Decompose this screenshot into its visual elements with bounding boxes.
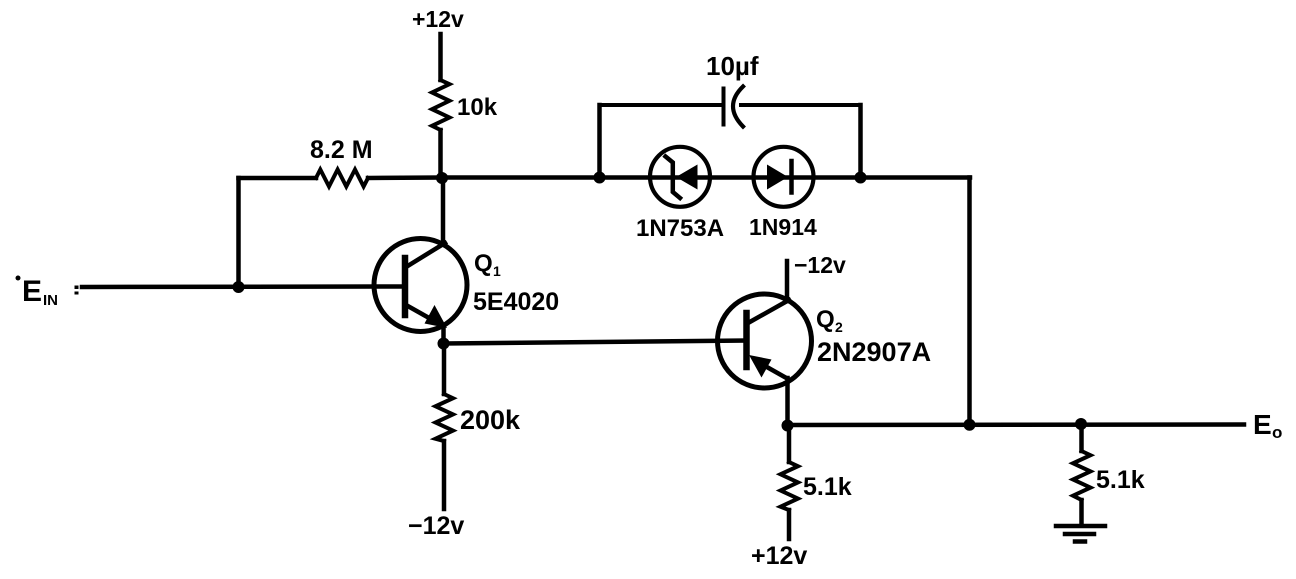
wire capacitor top left segment [600,103,724,107]
capacitor C 10uf left plate [722,89,726,125]
wire output horizontal [788,422,1245,427]
svg-text:5.1k: 5.1k [1096,466,1145,494]
wire capacitor left riser [597,105,602,178]
svg-text:1N914: 1N914 [749,214,817,240]
svg-text:Q: Q [474,250,493,277]
svg-text:5.1k: 5.1k [803,473,852,501]
resistor R 200k [436,394,454,441]
svg-text:1: 1 [493,263,501,279]
node E_IN label [16,275,79,309]
svg-text:+12v: +12v [751,542,807,570]
wire 10k to node [438,130,443,178]
transistor Q1 emitter diagonal [406,305,438,323]
wire capacitor top right segment [741,103,861,107]
node Q1 emitter junction [438,338,450,350]
wire main horizontal diode row [442,175,970,180]
svg-text:+12v: +12v [412,6,464,32]
wire 5.1k to +12v [787,510,792,539]
wire Q2 emitter to 5.1k [787,426,792,463]
svg-text:5E4020: 5E4020 [473,288,559,316]
resistor R 5.1k (Q2 emitter) [781,462,799,510]
wire capacitor right riser [858,105,863,178]
wire Q2 collector vertical to -12v [785,261,790,301]
node collector junction [436,172,448,184]
wire 200k to -12v [442,441,447,509]
wire E_IN input lead [82,284,405,289]
transistor Q1 emitter arrowhead [425,305,448,328]
node output junction (from diodes) [964,419,976,431]
wire 8.2M to base node [368,175,442,180]
wire Q1 emitter to 200k [442,344,447,395]
wire Q1 emitter vertical [441,326,446,344]
node junction input/feedback [233,281,245,293]
diode D1 zener cathode bar [666,157,681,199]
svg-text:IN: IN [43,292,58,309]
svg-text:200k: 200k [460,405,521,435]
node cap left junction [594,172,606,184]
wire feedback horizontal to resistor [239,176,317,181]
svg-text:10k: 10k [457,94,498,121]
transistor Q2 emitter diagonal [758,362,789,380]
svg-text:Q: Q [816,306,835,333]
capacitor C 10uf right curved plate [733,87,743,127]
svg-text:2N2907A: 2N2907A [817,337,931,367]
transistor Q2 emitter arrowhead [749,355,772,378]
wire load resistor drop [1079,424,1084,451]
node Q2 emitter junction [782,420,794,432]
diode D1 1N753A circle [650,147,710,207]
transistor Q2 circle [718,294,812,388]
svg-text:−12v: −12v [794,252,846,278]
svg-text:8.2 M: 8.2 M [310,136,373,164]
diode D2 1N914 circle [754,147,814,207]
node cap right junction [855,172,867,184]
diode D2 arrow (points right) [767,165,788,190]
resistor R 8.2M [316,170,368,187]
transistor Q2 collector diagonal [748,300,789,323]
svg-text:1N753A: 1N753A [636,215,724,242]
svg-text:−12v: −12v [408,512,464,540]
transistor Q1 base bar [402,258,409,315]
svg-text:E: E [1253,409,1272,440]
wire Q2 emitter vertical [785,378,790,426]
svg-text:10µf: 10µf [706,51,759,81]
svg-text:2: 2 [835,319,843,335]
svg-text:o: o [1272,423,1282,442]
diode D1 arrow (points left) [676,165,698,190]
diode D2 cathode bar [789,161,794,193]
transistor Q2 base bar [743,313,750,367]
wire 5.1k to ground [1079,500,1084,524]
wire Q1 collector vertical [441,178,446,244]
resistor R 10k [432,80,450,130]
ground symbol [1056,524,1105,529]
transistor Q1 collector diagonal [406,243,445,267]
transistor Q1 circle [374,239,467,332]
wire Q1 emitter to Q2 base [444,341,747,344]
wire right corner vertical [967,178,972,426]
svg-text:E: E [22,275,42,308]
resistor R 5.1k (load) [1073,451,1091,500]
wire +12v to 10k [438,34,443,80]
wire feedback vertical riser [236,178,241,287]
node output junction (load) [1075,418,1087,430]
